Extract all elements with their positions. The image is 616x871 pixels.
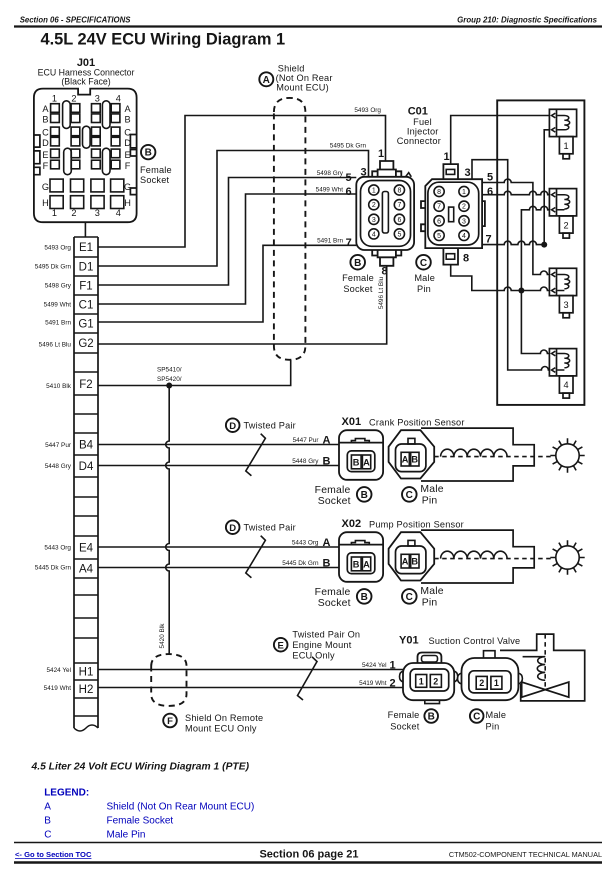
svg-text:4.5L 24V ECU Wiring Diagram 1: 4.5L 24V ECU Wiring Diagram 1 (41, 31, 286, 49)
svg-text:5496 Lt Blu: 5496 Lt Blu (39, 342, 72, 349)
svg-text:Engine Mount: Engine Mount (292, 640, 351, 650)
J01 right edge notch 3 (130, 188, 136, 195)
X01 sensor housing (421, 428, 534, 481)
svg-text:G2: G2 (78, 338, 93, 350)
C01 male pin circle numbers (437, 189, 466, 240)
svg-text:Female: Female (315, 485, 351, 496)
svg-text:5495 Dk Grn: 5495 Dk Grn (330, 143, 367, 150)
splice node on pin8 wire (518, 288, 524, 294)
svg-text:B: B (125, 115, 131, 125)
shield A dashed stadium (274, 98, 306, 360)
svg-text:Shield: Shield (278, 64, 305, 74)
svg-text:1: 1 (462, 189, 466, 196)
shield F callout (163, 714, 177, 728)
wire 5410 Blk : F2 to shield A drain (98, 360, 291, 386)
J01 right edge notch 2 (130, 150, 136, 157)
footer rule (14, 842, 602, 844)
svg-text:5496 Lt Blu: 5496 Lt Blu (378, 276, 385, 309)
svg-text:Socket: Socket (343, 284, 373, 294)
wire 5496 Lt Blu : G2 to C01-B pin 8 (98, 266, 387, 344)
svg-text:Male: Male (420, 484, 443, 495)
svg-text:C: C (42, 128, 49, 138)
svg-text:Twisted Pair On: Twisted Pair On (292, 630, 360, 640)
svg-text:F1: F1 (79, 281, 92, 293)
wire C01-C pin1 to injector 1 (451, 116, 550, 165)
terminal strip cell dividers (74, 237, 98, 716)
svg-text:5493 Org: 5493 Org (354, 107, 381, 114)
svg-text:(Not On Rear: (Not On Rear (276, 73, 333, 83)
svg-text:2: 2 (564, 220, 569, 230)
X02 twisted pair mark (246, 536, 266, 578)
svg-text:Socket: Socket (318, 496, 351, 507)
injector bank enclosure (497, 100, 584, 405)
svg-text:Crank Position Sensor: Crank Position Sensor (369, 418, 465, 428)
wire 5447 Pur : B4 to X01-B pin A (98, 444, 339, 446)
svg-text:B: B (353, 559, 360, 569)
C01 female inner face (361, 181, 411, 247)
svg-text:A4: A4 (79, 564, 94, 576)
Y01 male pin body (458, 651, 523, 701)
svg-text:8: 8 (397, 188, 401, 195)
svg-text:E: E (42, 150, 48, 160)
svg-text:7: 7 (397, 202, 401, 209)
svg-text:5448 Gry: 5448 Gry (45, 463, 72, 470)
C01 female socket numbers (372, 188, 402, 239)
svg-text:3: 3 (95, 94, 100, 104)
C01 female callout B (350, 255, 365, 270)
fuel injector 3 (549, 268, 576, 318)
svg-text:5443 Org: 5443 Org (292, 540, 319, 547)
svg-text:F: F (167, 716, 173, 727)
svg-text:Male: Male (414, 273, 435, 283)
C01 female socket body (356, 161, 414, 266)
wire J01 to terminal strip (84, 222, 86, 237)
svg-text:5499 Wht: 5499 Wht (316, 187, 344, 194)
svg-text:1: 1 (52, 208, 57, 218)
Y01 male callout C (470, 709, 484, 723)
J01 row letters left (42, 104, 50, 208)
svg-text:5447 Pur: 5447 Pur (45, 442, 72, 449)
shield F dashed stadium (151, 654, 186, 706)
svg-text:Male Pin: Male Pin (107, 830, 146, 841)
svg-text:4: 4 (564, 380, 569, 390)
wire C01-C pin8 common (inj2 lower, inj3 lower, inj4 upper) (451, 206, 550, 353)
svg-text:Connector: Connector (397, 136, 441, 146)
svg-text:4.5 Liter 24 Volt ECU Wiring D: 4.5 Liter 24 Volt ECU Wiring Diagram 1 (… (31, 762, 250, 773)
svg-text:C1: C1 (79, 300, 94, 312)
svg-text:<- Go to Section TOC: <- Go to Section TOC (15, 850, 92, 859)
svg-text:2: 2 (462, 204, 466, 211)
Y01 solenoid coil (537, 657, 545, 681)
svg-text:8: 8 (463, 253, 469, 265)
svg-text:Female: Female (388, 710, 420, 720)
svg-text:F: F (43, 161, 49, 171)
svg-text:SP5420/: SP5420/ (157, 376, 182, 383)
X02 male pin hexagon (389, 532, 435, 580)
X02 female socket body (339, 532, 383, 582)
wire 5498 Gry : F1 to C01-B pin 5 (98, 178, 356, 286)
Y01 valve stem dashed (544, 634, 546, 690)
wire 5448 Gry : D4 to X01-B pin B (98, 465, 339, 467)
X01 male callout C (402, 487, 417, 502)
svg-text:Section 06 page 21: Section 06 page 21 (259, 848, 358, 860)
svg-text:B: B (354, 258, 361, 269)
C01 female bottom pin-8 stub (378, 250, 396, 266)
svg-text:Section 06 - SPECIFICATIONS: Section 06 - SPECIFICATIONS (20, 16, 132, 25)
svg-text:B: B (411, 557, 418, 567)
svg-text:5424 Yel: 5424 Yel (46, 667, 71, 674)
svg-text:2: 2 (479, 678, 484, 688)
svg-text:LEGEND:: LEGEND: (44, 788, 89, 799)
svg-text:5495 Dk Grn: 5495 Dk Grn (35, 264, 72, 271)
svg-text:A: A (263, 75, 270, 86)
connector J01 body outline (34, 89, 137, 223)
svg-text:Pin: Pin (422, 598, 438, 609)
svg-text:5499 Wht: 5499 Wht (44, 302, 72, 309)
svg-text:Shield On Remote: Shield On Remote (185, 713, 263, 723)
svg-text:3: 3 (462, 218, 466, 225)
C01 male callout C (416, 255, 431, 270)
svg-text:D: D (124, 138, 131, 148)
svg-text:1: 1 (494, 678, 499, 688)
X02 sensor coil (441, 551, 507, 558)
svg-text:Female Socket: Female Socket (107, 816, 174, 827)
wire 5424 Yel : H1 to Y01-B pin 1 (98, 669, 403, 671)
svg-text:4: 4 (116, 94, 121, 104)
svg-text:A: A (44, 802, 51, 813)
C01 female pin number labels (345, 148, 387, 278)
C01 female top small tabs (372, 171, 401, 177)
svg-text:5445 Dk Grn: 5445 Dk Grn (282, 560, 319, 567)
svg-text:8: 8 (381, 266, 387, 278)
svg-text:5447 Pur: 5447 Pur (293, 437, 320, 444)
svg-text:G: G (124, 182, 131, 192)
svg-text:5: 5 (437, 233, 441, 240)
svg-text:2: 2 (433, 676, 438, 686)
Y01 solenoid coil feed (523, 656, 546, 658)
svg-text:3: 3 (372, 217, 376, 224)
C01 male center key (449, 207, 454, 222)
svg-text:5420 Blk: 5420 Blk (159, 623, 166, 649)
svg-text:6: 6 (437, 218, 441, 225)
svg-text:Shield (Not On Rear Mount ECU): Shield (Not On Rear Mount ECU) (107, 802, 255, 813)
svg-text:Twisted Pair: Twisted Pair (244, 523, 296, 533)
X02 male callout C (402, 589, 417, 604)
svg-text:Mount ECU): Mount ECU) (276, 83, 329, 93)
splice node SP5410/SP5420 (166, 383, 172, 389)
X01 male pin hexagon (389, 430, 435, 478)
svg-text:3: 3 (464, 167, 470, 179)
svg-text:Socket: Socket (318, 598, 351, 609)
svg-text:A: A (363, 559, 370, 569)
svg-text:7: 7 (485, 234, 491, 246)
svg-text:3: 3 (95, 208, 100, 218)
svg-text:Socket: Socket (390, 722, 420, 732)
svg-text:D: D (42, 138, 49, 148)
C01 female top pin-1 stub (378, 161, 396, 177)
J01 pin sockets grid rows A-F (51, 104, 120, 169)
C01 male left tabs (421, 201, 425, 231)
wire 5445 Dk Grn : A4 to X02-B pin B (98, 567, 339, 569)
svg-text:Socket: Socket (140, 175, 170, 185)
svg-text:E1: E1 (79, 242, 93, 254)
X01 female socket body (339, 430, 383, 480)
svg-text:Pin: Pin (486, 722, 500, 732)
svg-text:B: B (428, 712, 435, 723)
svg-text:F: F (125, 161, 131, 171)
terminal strip torn bottom (74, 725, 98, 731)
footer bottom rule (14, 861, 602, 863)
wire C01-C pin5 to injector 3 upper (482, 179, 549, 274)
svg-text:5448 Gry: 5448 Gry (292, 458, 319, 465)
svg-text:Pin: Pin (417, 284, 431, 294)
svg-text:5419 Wht: 5419 Wht (359, 680, 387, 687)
wire 5420 Blk drain : splice down to shield F (166, 386, 170, 655)
svg-text:B: B (323, 558, 331, 570)
legend block (44, 788, 254, 841)
svg-text:C: C (44, 830, 51, 841)
svg-text:Female: Female (140, 165, 172, 175)
X02 twisted pair callout D (226, 520, 240, 534)
svg-text:2: 2 (71, 94, 76, 104)
svg-text:E: E (278, 640, 284, 651)
svg-text:SP5410/: SP5410/ (157, 367, 182, 374)
svg-text:4: 4 (462, 233, 466, 240)
J01 left edge notch 1 (34, 135, 40, 147)
svg-text:Suction Control Valve: Suction Control Valve (429, 636, 521, 646)
svg-text:6: 6 (345, 186, 351, 198)
svg-text:Female: Female (315, 587, 351, 598)
J01 keyway slots (63, 101, 110, 175)
svg-text:1: 1 (419, 676, 424, 686)
twisted pair callout E (274, 638, 288, 652)
svg-text:C: C (473, 712, 480, 723)
wire C01-C pin6 to injector 2 upper (482, 191, 549, 194)
C01 female bottom small tabs (372, 250, 401, 256)
svg-text:E: E (125, 150, 131, 160)
svg-text:F2: F2 (79, 379, 92, 391)
svg-text:5410 Blk: 5410 Blk (46, 383, 72, 390)
svg-text:A: A (363, 457, 370, 467)
svg-text:H1: H1 (79, 667, 94, 679)
svg-text:Pin: Pin (422, 496, 438, 507)
svg-text:D: D (229, 523, 236, 534)
svg-text:X02: X02 (342, 518, 362, 530)
svg-text:A: A (323, 537, 331, 549)
C01 male top pin-1 stub (443, 164, 458, 179)
C01 female top-right wedge (406, 173, 412, 177)
svg-text:A: A (42, 104, 49, 114)
svg-text:5: 5 (345, 172, 351, 184)
svg-text:B: B (323, 456, 331, 468)
Y01 twisted pair mark (298, 657, 318, 700)
svg-text:C: C (124, 128, 131, 138)
terminal strip wire number labels (35, 245, 72, 693)
J01 row letters right (124, 104, 132, 208)
fuel injector 1 (549, 109, 576, 159)
svg-text:X01: X01 (342, 416, 362, 428)
svg-text:3: 3 (360, 167, 366, 179)
wire 5499 Wht : C1 to C01-B pin 6 (98, 194, 356, 304)
svg-text:5498 Gry: 5498 Gry (317, 170, 344, 177)
X02 reluctor dashed line (434, 558, 553, 560)
svg-text:Group 210: Diagnostic Specific: Group 210: Diagnostic Specifications (457, 16, 597, 25)
svg-text:5443 Org: 5443 Org (44, 545, 71, 552)
svg-text:5445 Dk Grn: 5445 Dk Grn (35, 565, 72, 572)
X02 tone wheel symbol (550, 540, 584, 574)
svg-text:H2: H2 (79, 684, 94, 696)
C01 female center key slot (382, 192, 388, 234)
svg-text:B: B (361, 490, 368, 501)
svg-text:E4: E4 (79, 543, 94, 555)
wire 5495 Dk Grn : D1 to C01-B pin 3 (98, 151, 369, 267)
Y01 female socket body (400, 653, 458, 704)
svg-text:Fuel: Fuel (413, 117, 432, 127)
svg-text:5424 Yel: 5424 Yel (362, 662, 387, 669)
C01 female socket circles (369, 185, 405, 239)
shield A callout (259, 72, 273, 86)
svg-text:G1: G1 (78, 319, 93, 331)
svg-text:4: 4 (372, 231, 376, 238)
fuel injector 2 (549, 189, 576, 239)
X01 twisted pair callout D (226, 418, 240, 432)
svg-text:Mount ECU Only: Mount ECU Only (185, 724, 257, 734)
svg-text:4: 4 (116, 208, 121, 218)
svg-text:6: 6 (487, 186, 493, 198)
svg-text:B: B (44, 816, 51, 827)
svg-text:G: G (42, 182, 49, 192)
svg-text:B: B (411, 455, 418, 465)
svg-text:A: A (402, 557, 409, 567)
Y01 female callout B (424, 709, 438, 723)
wire 5493 Org : E1 to C01-B pin 1 (98, 116, 386, 248)
terminal strip pin names (78, 242, 94, 696)
svg-text:1: 1 (378, 148, 384, 160)
X01 reluctor dashed line (434, 456, 553, 458)
splice node on pin7 wire (541, 242, 547, 248)
svg-text:Male: Male (486, 710, 507, 720)
wire 5419 Wht : H2 to Y01-B pin 2 (98, 687, 403, 689)
svg-text:D: D (229, 421, 236, 432)
svg-text:1: 1 (443, 151, 449, 163)
svg-text:5498 Gry: 5498 Gry (45, 283, 72, 290)
svg-text:3: 3 (564, 300, 569, 310)
J01 left edge notch 2 (34, 151, 40, 164)
J01 column numbers top (52, 94, 121, 104)
C01 male bottom pin-8 stub (443, 248, 458, 265)
svg-text:5: 5 (397, 231, 401, 238)
wire 5443 Org : E4 to X02-B pin A (98, 546, 339, 548)
svg-text:D4: D4 (79, 461, 94, 473)
svg-text:7: 7 (437, 204, 441, 211)
X01 twisted pair mark (246, 434, 266, 476)
Y01 valve bowtie (522, 682, 569, 697)
svg-text:B: B (353, 457, 360, 467)
svg-text:7: 7 (346, 237, 352, 249)
svg-text:2: 2 (71, 208, 76, 218)
J01 left edge notch 3 (34, 167, 40, 174)
svg-text:A: A (402, 455, 409, 465)
svg-text:1: 1 (52, 94, 57, 104)
svg-text:A: A (125, 104, 132, 114)
svg-text:H: H (124, 198, 131, 208)
svg-text:1: 1 (564, 141, 569, 151)
svg-text:1: 1 (372, 188, 376, 195)
C01 male right tab (482, 201, 485, 226)
svg-text:C: C (420, 258, 427, 269)
svg-text:5491 Brn: 5491 Brn (45, 320, 71, 327)
X01 female callout B (357, 487, 372, 502)
Y01 valve housing (500, 634, 585, 701)
header rule (14, 25, 602, 27)
X01 tone wheel symbol (550, 438, 584, 472)
svg-text:5491 Brn: 5491 Brn (317, 238, 343, 245)
svg-text:Female: Female (342, 273, 374, 283)
J01 column numbers bottom (52, 208, 121, 218)
svg-text:B4: B4 (79, 440, 94, 452)
wire C01-C pin3 to injector 4 lower (472, 160, 549, 370)
svg-text:C: C (406, 592, 413, 603)
svg-text:Injector: Injector (407, 127, 439, 137)
J01 female socket callout B (141, 145, 155, 159)
svg-text:Y01: Y01 (399, 635, 419, 647)
X02 female callout B (357, 589, 372, 604)
svg-text:C: C (406, 490, 413, 501)
svg-text:B: B (42, 115, 48, 125)
X01 sensor coil (441, 449, 507, 456)
C01 male pin number labels (443, 151, 493, 265)
wire C01-C pin7 common (to inj1 return, inj3 coil) (482, 130, 549, 245)
svg-text:5493 Org: 5493 Org (44, 245, 71, 252)
J01 pin sockets rows G H (50, 179, 124, 208)
svg-text:C01: C01 (408, 106, 428, 118)
svg-text:CTM502-COMPONENT TECHNICAL MAN: CTM502-COMPONENT TECHNICAL MANUAL (449, 850, 602, 859)
svg-text:(Black Face): (Black Face) (61, 77, 110, 87)
svg-text:2: 2 (372, 202, 376, 209)
svg-text:Pump Position Sensor: Pump Position Sensor (369, 520, 464, 530)
J01 right edge notch 1 (130, 135, 136, 148)
fuel injector 4 (549, 349, 576, 399)
svg-text:5419 Wht: 5419 Wht (44, 685, 72, 692)
svg-text:8: 8 (437, 189, 441, 196)
C01 male pin circles (434, 186, 469, 240)
C01 male inner face (428, 182, 479, 245)
svg-text:1: 1 (389, 660, 395, 672)
svg-text:H: H (42, 198, 49, 208)
svg-text:B: B (361, 592, 368, 603)
svg-text:A: A (323, 435, 331, 447)
svg-text:D1: D1 (79, 262, 94, 274)
svg-text:Twisted Pair: Twisted Pair (244, 421, 296, 431)
wire 5491 Brn : G1 to C01-B pin 7 (98, 245, 356, 322)
svg-text:6: 6 (397, 217, 401, 224)
C01 male pin body (421, 164, 485, 265)
svg-text:Male: Male (420, 586, 443, 597)
X02 sensor housing (421, 530, 534, 583)
svg-text:B: B (145, 148, 152, 159)
ECU terminal strip outline (74, 237, 98, 728)
svg-text:2: 2 (389, 678, 395, 690)
